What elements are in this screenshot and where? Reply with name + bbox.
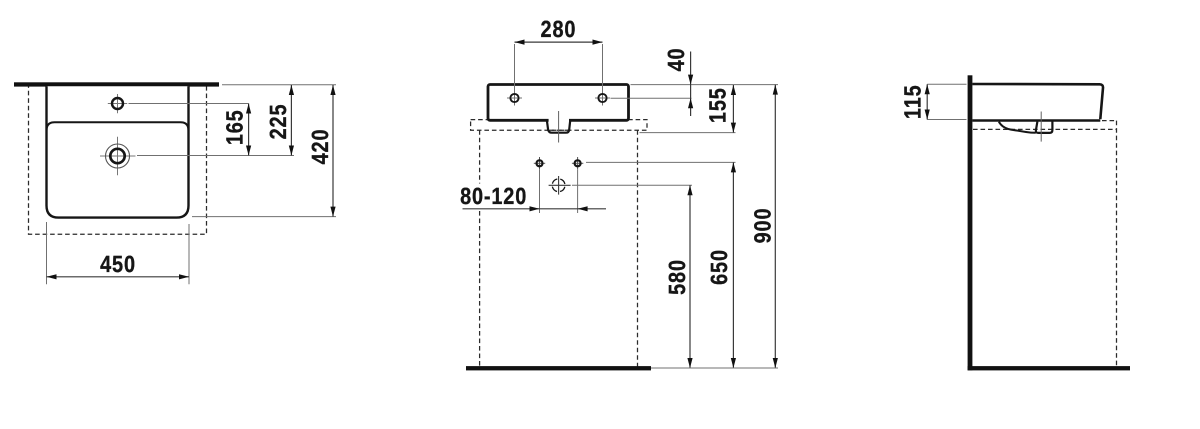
left tap hole (front) bbox=[514, 91, 516, 106]
dimension 225 bbox=[290, 85, 292, 156]
wall bolt holes bbox=[539, 157, 541, 170]
dashed outline rectangle (mounting plate, top view) bbox=[29, 84, 207, 234]
bolt extension line (650) bbox=[586, 161, 736, 163]
dashed shelf bottom through outlet bbox=[550, 129, 569, 131]
svg-text:225: 225 bbox=[265, 104, 291, 140]
dashed pedestal (side view) horizontal bbox=[973, 128, 1117, 130]
top extension line bbox=[222, 84, 336, 86]
dashed pedestal left edge bbox=[479, 130, 481, 183]
drain fitting (side view) bbox=[1036, 122, 1053, 133]
right tap hole (front) bbox=[602, 91, 604, 106]
svg-text:900: 900 bbox=[750, 208, 776, 244]
wall line (thick, top) bbox=[14, 82, 219, 86]
svg-text:450: 450 bbox=[100, 251, 136, 277]
erase basin bottom edge at outlet bbox=[549, 118, 569, 123]
extension line from tap hole bbox=[129, 103, 249, 105]
dimension 420 bbox=[332, 85, 334, 217]
dimension 155 bbox=[732, 85, 734, 133]
svg-text:580: 580 bbox=[664, 259, 690, 295]
dimension 450 bbox=[47, 276, 190, 278]
wall line (thick, vertical) bbox=[968, 75, 973, 370]
bowl underside bulge bbox=[999, 122, 1036, 133]
svg-text:80-120: 80-120 bbox=[460, 183, 527, 209]
dashed pedestal right edge bbox=[637, 130, 639, 367]
dashed pedestal front edge bbox=[1116, 121, 1118, 367]
floor extension line (thin) bbox=[651, 367, 778, 369]
extension line from drain bbox=[137, 155, 294, 157]
tap hole extension line bbox=[611, 97, 692, 99]
dimension 40 bbox=[690, 52, 692, 117]
basin profile (side view) bbox=[972, 84, 1103, 119]
dashed shelf rectangle bbox=[471, 120, 647, 131]
bolt hole drop lines bbox=[539, 170, 541, 213]
dimension 115 bbox=[926, 84, 928, 119]
drain hole (concentric circles with crosshair) bbox=[117, 137, 119, 175]
svg-text:155: 155 bbox=[704, 87, 730, 123]
floor line (thick) bbox=[968, 366, 1130, 370]
shelf bottom extension line (155) bbox=[640, 132, 736, 134]
basin outer outline (top view) bbox=[47, 86, 189, 217]
siphon outlet bbox=[547, 121, 570, 133]
basin bottom edge bbox=[972, 119, 1100, 121]
extension lines 450 bbox=[46, 222, 48, 284]
drain centerline (side view) bbox=[1040, 112, 1042, 142]
extension lines 115 bbox=[927, 83, 966, 85]
basin body (front view) bbox=[488, 85, 629, 121]
bottom extension line (420) bbox=[192, 216, 336, 218]
drain extension line (580) bbox=[572, 184, 692, 186]
svg-text:650: 650 bbox=[706, 249, 732, 285]
svg-text:280: 280 bbox=[541, 16, 577, 42]
svg-text:115: 115 bbox=[900, 84, 926, 119]
dimension 80-120 bbox=[463, 208, 607, 210]
centerline through outlet bbox=[558, 111, 560, 143]
svg-text:165: 165 bbox=[222, 109, 248, 145]
top extension line (right of basin) bbox=[631, 84, 779, 86]
dimension 280 bbox=[515, 41, 603, 43]
svg-text:40: 40 bbox=[663, 48, 689, 72]
dashed step at basin bottom bbox=[1102, 120, 1117, 122]
dimension 650 bbox=[732, 162, 734, 368]
drain pipe circle (front) bbox=[558, 176, 560, 195]
floor line (thick) bbox=[466, 366, 651, 370]
dimension 900 bbox=[774, 85, 776, 368]
dimension 580 bbox=[689, 185, 691, 368]
dimension 165 bbox=[248, 104, 250, 156]
extension lines 280 bbox=[514, 44, 516, 91]
bowl top edge line bbox=[47, 122, 189, 130]
svg-text:420: 420 bbox=[307, 129, 333, 165]
tap hole (circle with cross) bbox=[117, 94, 119, 113]
